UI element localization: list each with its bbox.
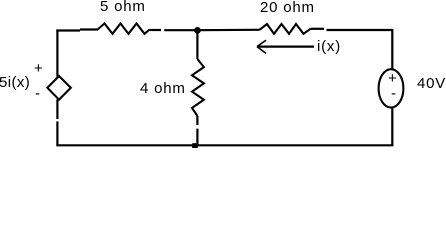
node B junction dot bottom: [192, 143, 198, 148]
resistor R2 20 ohm: [260, 24, 311, 34]
voltage source V1 40V ellipse: [379, 69, 404, 107]
polarity + of dependent source: [34, 60, 44, 77]
label 40V: [417, 75, 446, 92]
node A junction dot: [194, 27, 201, 34]
current arrow i(x) upper barb: [257, 40, 266, 46]
dependent source U1 5i(x) diamond: [47, 76, 70, 100]
wire center bottom lead lower part: [196, 129, 198, 146]
resistor R3 4 ohm: [192, 59, 204, 116]
label 4 ohm: [140, 80, 186, 97]
label 5 ohm: [100, 0, 146, 15]
label 5i(x): [0, 74, 30, 91]
wire left rail upper: [56, 30, 58, 77]
wire left rail lower upper-part: [56, 99, 58, 119]
label i(x): [317, 38, 341, 55]
polarity + inside voltage source: [388, 70, 398, 87]
wire top-left horizontal segment 2 (1px step up): [80, 28, 98, 30]
wire top-middle segment after gap: [164, 29, 197, 31]
current arrow i(x) lower barb: [257, 47, 266, 54]
label 20 ohm: [260, 0, 315, 16]
wire center bottom lead upper part: [196, 116, 198, 125]
wire top-right segment after gap: [327, 30, 393, 70]
wire center top lead: [196, 30, 198, 59]
current arrow i(x) shaft: [257, 45, 314, 47]
polarity - inside voltage source: [391, 85, 397, 102]
wire from node A to 20 ohm: [197, 29, 260, 32]
wire bottom rail: [56, 144, 393, 146]
polarity - of dependent source: [35, 85, 41, 102]
wire top-middle segment before gap: [150, 29, 162, 31]
wire left rail lower lower-part: [56, 121, 58, 145]
wire top-right segment before gap (sits higher): [311, 28, 325, 30]
resistor R1 5 ohm: [98, 24, 150, 34]
wire top-left horizontal segment 1: [56, 29, 80, 31]
wire right rail lower: [391, 107, 393, 145]
